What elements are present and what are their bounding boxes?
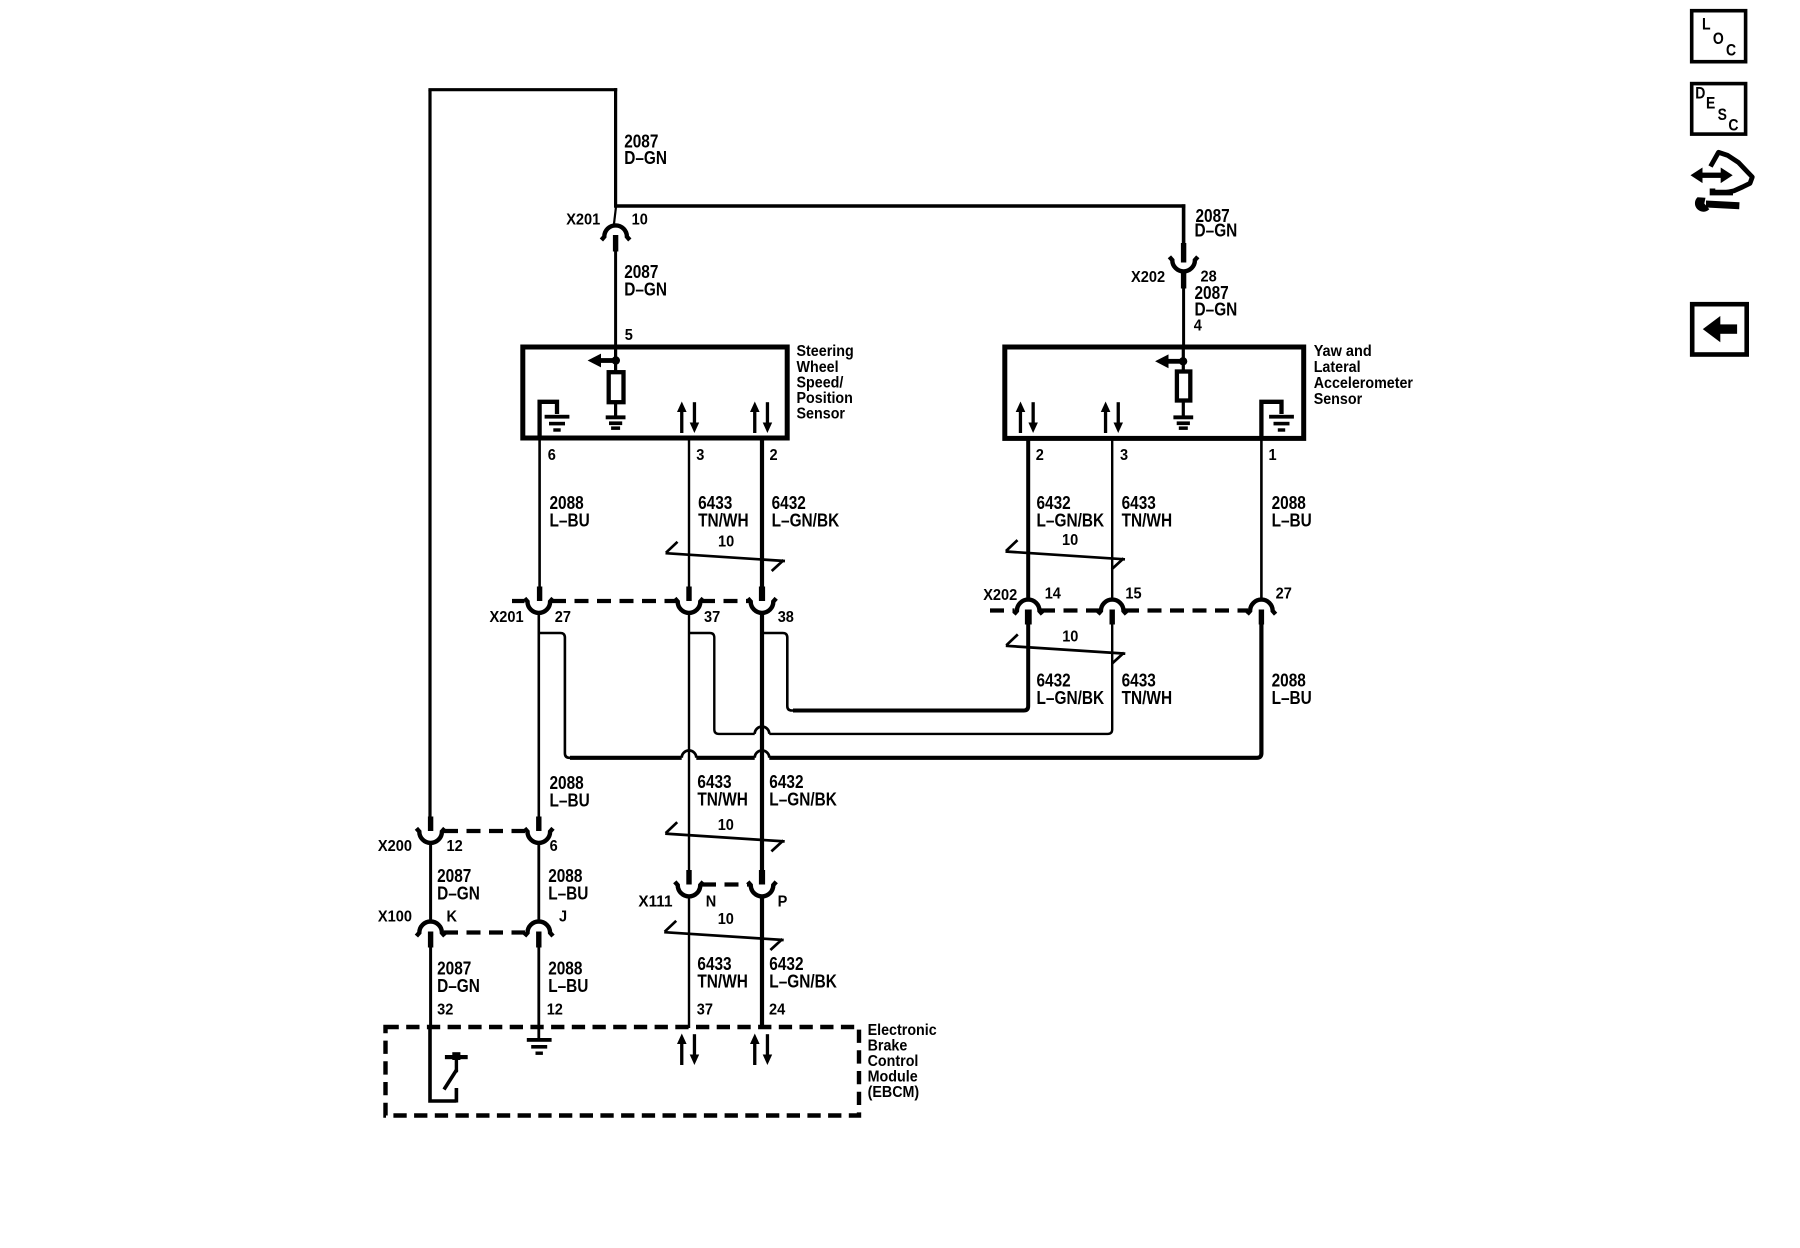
svg-text:Sensor: Sensor <box>1314 391 1363 408</box>
wire 6432 jog X201-38 to crossover run <box>762 633 795 711</box>
svg-text:6: 6 <box>548 447 556 464</box>
svg-text:37: 37 <box>697 1002 713 1019</box>
internal arrow (signal direction) steering <box>588 354 620 368</box>
svg-text:L: L <box>1702 16 1711 34</box>
icon LOC box <box>1692 11 1746 62</box>
svg-text:Wheel: Wheel <box>797 359 839 376</box>
wire 2087 D-GN drop to X202 <box>1182 204 1186 258</box>
icon back-arrow box <box>1692 304 1747 354</box>
pin stub X202-15 <box>1110 610 1115 625</box>
label Yaw and Lateral Accelerometer Sensor <box>1314 343 1413 408</box>
svg-text:L–GN/BK: L–GN/BK <box>1037 509 1105 530</box>
svg-text:D–GN: D–GN <box>437 975 480 996</box>
svg-text:38: 38 <box>778 609 794 626</box>
svg-text:L–BU: L–BU <box>550 509 590 530</box>
connector X202 terminal 15 <box>1098 600 1126 615</box>
svg-text:Accelerometer: Accelerometer <box>1314 375 1413 392</box>
svg-text:TN/WH: TN/WH <box>1122 509 1173 530</box>
svg-text:37: 37 <box>704 609 720 626</box>
connector X200 terminal 12 <box>416 828 444 843</box>
connector X201 terminal 27 <box>525 598 553 613</box>
connector X111 terminal N <box>675 882 703 897</box>
svg-text:S: S <box>1718 106 1727 124</box>
connector X201 terminal 10 <box>601 225 629 240</box>
wire 6433 TN/WH steering pin3 to X201-37 <box>688 438 690 590</box>
svg-text:10: 10 <box>718 534 734 551</box>
wire 2087 D-GN top horizontal run <box>428 88 617 91</box>
svg-text:P: P <box>778 893 788 910</box>
bidirectional arrows (steering pin 2) <box>750 402 772 434</box>
wire 2088 L-BU steering pin6 to X201-27 <box>538 438 541 590</box>
svg-text:L–BU: L–BU <box>548 882 588 903</box>
wire 6433 TN/WH yaw pin3 to X202-15 <box>1111 438 1113 600</box>
icon service: wrench <box>1695 197 1740 212</box>
svg-text:J: J <box>559 909 567 926</box>
svg-text:3: 3 <box>696 447 704 464</box>
connector X201 terminal 38 <box>748 598 776 613</box>
ground (EBCM internal, pin 12) <box>527 1038 552 1055</box>
svg-text:TN/WH: TN/WH <box>697 970 748 991</box>
svg-text:Electronic: Electronic <box>868 1022 937 1039</box>
wire 2088 X200-6 to X100-J <box>537 843 540 923</box>
svg-text:X200: X200 <box>378 838 412 855</box>
switch contact bar <box>445 1055 468 1059</box>
svg-text:X201: X201 <box>490 609 524 626</box>
twisted pair marker 10 (right, above X202) <box>1006 540 1126 569</box>
svg-text:12: 12 <box>447 838 463 855</box>
icon service: panel base bar <box>1713 189 1734 193</box>
wire 2087 X200-12 to X100-K <box>429 843 432 923</box>
component box Steering Wheel Speed/Position Sensor <box>523 347 787 438</box>
svg-text:15: 15 <box>1125 586 1141 603</box>
connector X100 terminal K <box>416 922 444 937</box>
wire 2088 X100-J to EBCM pin 12 <box>537 947 540 1029</box>
wire pin 1 to internal ground elbow <box>1261 402 1281 437</box>
svg-text:10: 10 <box>718 817 734 834</box>
svg-text:L–BU: L–BU <box>550 789 590 810</box>
svg-text:5: 5 <box>625 327 633 344</box>
svg-text:D–GN: D–GN <box>1195 220 1238 241</box>
pin stub X201-10 <box>613 235 618 252</box>
switch contact stem <box>455 1059 458 1073</box>
icon DESC letters <box>1695 85 1738 135</box>
pin stub above X202-28 <box>1181 243 1186 263</box>
connector X200 terminal 6 <box>525 828 553 843</box>
svg-text:L–BU: L–BU <box>1272 509 1312 530</box>
connector X202 terminal 28 <box>1169 257 1197 272</box>
wire 6432 L-GN/BK yaw pin2 to X202-14 <box>1026 438 1030 600</box>
icon back arrow <box>1703 316 1737 342</box>
wire 2087 D-GN X201 to sensor pin 5 <box>614 250 617 347</box>
wire pin4 to resistor <box>1182 345 1185 374</box>
svg-text:TN/WH: TN/WH <box>1122 687 1173 708</box>
connector X202 terminal 14 <box>1014 600 1042 615</box>
svg-text:D–GN: D–GN <box>624 147 667 168</box>
svg-text:Yaw and: Yaw and <box>1314 343 1372 360</box>
svg-text:D: D <box>1695 85 1705 103</box>
wire 6433 X111-N to EBCM pin 37 <box>688 896 690 1028</box>
svg-text:Steering: Steering <box>797 343 854 360</box>
svg-text:24: 24 <box>769 1002 785 1019</box>
svg-text:D–GN: D–GN <box>437 882 480 903</box>
pin stub X201-38 <box>759 587 765 602</box>
svg-text:27: 27 <box>555 609 571 626</box>
svg-text:X111: X111 <box>638 893 672 910</box>
svg-text:Position: Position <box>797 390 853 407</box>
pin stub X200-12 <box>428 817 433 832</box>
wire 6432 X111-P to EBCM pin 24 <box>760 896 764 1028</box>
bidirectional arrows (yaw pin 2) <box>1016 402 1038 434</box>
twisted pair marker 10 (left, above X201) <box>666 542 786 571</box>
component box Yaw and Lateral Accelerometer Sensor <box>1005 347 1304 438</box>
svg-text:27: 27 <box>1276 586 1292 603</box>
wire 2088 below X201-27 <box>537 613 540 821</box>
pin stub X202-14 <box>1025 610 1032 625</box>
internal arrow (signal direction) yaw <box>1155 354 1187 368</box>
wire 6433 jog X201-37 to crossover run <box>689 624 1112 734</box>
switch blade (EBCM internal) <box>444 1070 457 1090</box>
connector X202 terminal 27 <box>1247 600 1275 615</box>
svg-text:2: 2 <box>770 447 778 464</box>
wire 2087 into EBCM to switch <box>428 1026 456 1103</box>
pin stub below X202-28 <box>1181 271 1186 289</box>
svg-text:L–GN/BK: L–GN/BK <box>1037 687 1105 708</box>
ground (steering internal, pin 6) <box>545 415 570 432</box>
svg-text:L–BU: L–BU <box>1272 687 1312 708</box>
svg-text:TN/WH: TN/WH <box>698 509 749 530</box>
wire 2088 L-BU yaw pin1 to X202-27 <box>1260 438 1263 600</box>
bidirectional arrows (EBCM pin 24) <box>750 1034 772 1066</box>
bidirectional arrows (EBCM pin 37) <box>677 1034 699 1066</box>
wire 6432 below X201-38 <box>760 613 764 873</box>
wire 2087 X100-K to EBCM pin 32 <box>429 947 432 1029</box>
wire 2087 D-GN left vertical run <box>428 90 431 820</box>
icon DESC box <box>1692 84 1746 135</box>
pin stub X201-37 <box>686 587 691 602</box>
twisted pair marker 10 (right, below X202) <box>1006 634 1126 663</box>
wire 2088 L-BU crossover run to X202-27 <box>570 624 1261 758</box>
wire pin5 to resistor <box>614 345 617 374</box>
wire 6433 below X201-37 <box>688 613 690 873</box>
svg-text:L–GN/BK: L–GN/BK <box>769 788 837 809</box>
wire hop (6433 over 6432) <box>755 727 770 734</box>
wire 6432 L-GN/BK crossover run to X202-14 <box>793 624 1028 711</box>
resistor (yaw sensor internal) <box>1177 372 1190 401</box>
wire 2088 into EBCM to ground <box>537 1026 540 1039</box>
svg-text:4: 4 <box>1194 318 1202 335</box>
svg-text:2: 2 <box>1036 447 1044 464</box>
svg-text:C: C <box>1726 41 1736 59</box>
svg-text:6: 6 <box>550 838 558 855</box>
dashed harness line X202 row <box>990 608 1248 612</box>
wire 2087 D-GN branch horizontal to X202 <box>614 204 1185 207</box>
svg-text:X202: X202 <box>983 587 1017 604</box>
connector X201 terminal 37 <box>675 598 703 613</box>
wire lead-in tick at X201 pin 10 <box>614 205 616 226</box>
connector X111 terminal P <box>748 882 776 897</box>
svg-text:Control: Control <box>868 1053 919 1070</box>
connector X100 terminal J <box>525 922 553 937</box>
dashed harness line X201 row <box>512 599 749 603</box>
wire 2088 jog X201-27 to crossover run <box>539 633 572 758</box>
svg-text:Brake: Brake <box>868 1038 908 1055</box>
svg-text:10: 10 <box>718 911 734 928</box>
wire 6432 L-GN/BK steering pin2 to X201-38 <box>760 438 764 590</box>
label Steering Wheel Speed/Position Sensor <box>797 343 854 422</box>
ground (yaw internal, pin 1) <box>1269 415 1294 432</box>
svg-text:X100: X100 <box>378 909 412 926</box>
svg-text:L–BU: L–BU <box>548 975 588 996</box>
svg-text:10: 10 <box>1062 532 1078 549</box>
svg-text:X201: X201 <box>566 211 600 228</box>
wire 2087 D-GN X202 to sensor pin 4 <box>1182 287 1185 347</box>
resistor (steering sensor internal) <box>609 372 624 402</box>
wire hop (2088 over 6433) <box>682 751 697 758</box>
label Electronic Brake Control Module (EBCM) <box>868 1022 937 1101</box>
svg-text:D–GN: D–GN <box>624 278 667 299</box>
svg-text:1: 1 <box>1269 447 1277 464</box>
svg-text:X202: X202 <box>1131 269 1165 286</box>
pin stub X201-27 <box>537 587 542 602</box>
pin stub X200-6 <box>536 817 541 832</box>
svg-text:Speed/: Speed/ <box>797 374 844 391</box>
wire 2087 D-GN drop to X201 <box>614 88 617 206</box>
svg-text:14: 14 <box>1045 586 1061 603</box>
svg-text:10: 10 <box>632 211 648 228</box>
svg-text:N: N <box>706 893 717 910</box>
svg-text:(EBCM): (EBCM) <box>868 1084 920 1101</box>
pin stub X111-P <box>759 870 765 885</box>
svg-text:D–GN: D–GN <box>1195 299 1238 320</box>
icon LOC letters <box>1702 16 1736 60</box>
ground (yaw internal, under resistor) <box>1173 415 1193 430</box>
dashed harness line X200 row <box>444 829 525 833</box>
icon service: panel outline <box>1711 152 1753 192</box>
svg-text:K: K <box>447 909 458 926</box>
switch contact dot <box>452 1052 460 1060</box>
svg-text:L–GN/BK: L–GN/BK <box>769 970 837 991</box>
ground (steering internal, under resistor) <box>606 415 626 430</box>
pin stub X111-N <box>686 870 691 885</box>
svg-text:Sensor: Sensor <box>797 406 846 423</box>
twisted pair marker 10 (left, below X111) <box>664 921 784 950</box>
svg-text:TN/WH: TN/WH <box>697 788 748 809</box>
svg-text:12: 12 <box>547 1002 563 1019</box>
svg-text:32: 32 <box>437 1002 453 1019</box>
svg-text:3: 3 <box>1120 447 1128 464</box>
svg-text:C: C <box>1728 116 1738 134</box>
svg-text:E: E <box>1706 95 1715 113</box>
wire resistor to ground <box>614 402 617 417</box>
wire pin 6 to internal ground elbow <box>540 402 557 437</box>
wire resistor to ground <box>1182 400 1185 417</box>
svg-text:L–GN/BK: L–GN/BK <box>772 509 840 530</box>
svg-text:Lateral: Lateral <box>1314 359 1361 376</box>
svg-text:10: 10 <box>1062 628 1078 645</box>
pin stub X100-K <box>428 932 433 948</box>
wire hop (2088 over 6432) <box>755 751 770 758</box>
dashed harness line X100 row <box>444 930 525 934</box>
component box Electronic Brake Control Module (EBCM), dashed <box>386 1027 860 1116</box>
icon service: double arrow <box>1691 168 1733 184</box>
twisted pair marker 10 (left, above X111) <box>665 822 785 851</box>
pin stub X202-27 <box>1259 610 1264 625</box>
dashed harness line X111 row <box>702 882 749 886</box>
svg-text:O: O <box>1713 30 1724 48</box>
svg-text:Module: Module <box>868 1069 918 1086</box>
bidirectional arrows (yaw pin 3) <box>1101 402 1123 434</box>
bidirectional arrows (steering pin 3) <box>677 402 699 434</box>
pin stub X100-J <box>536 932 541 948</box>
